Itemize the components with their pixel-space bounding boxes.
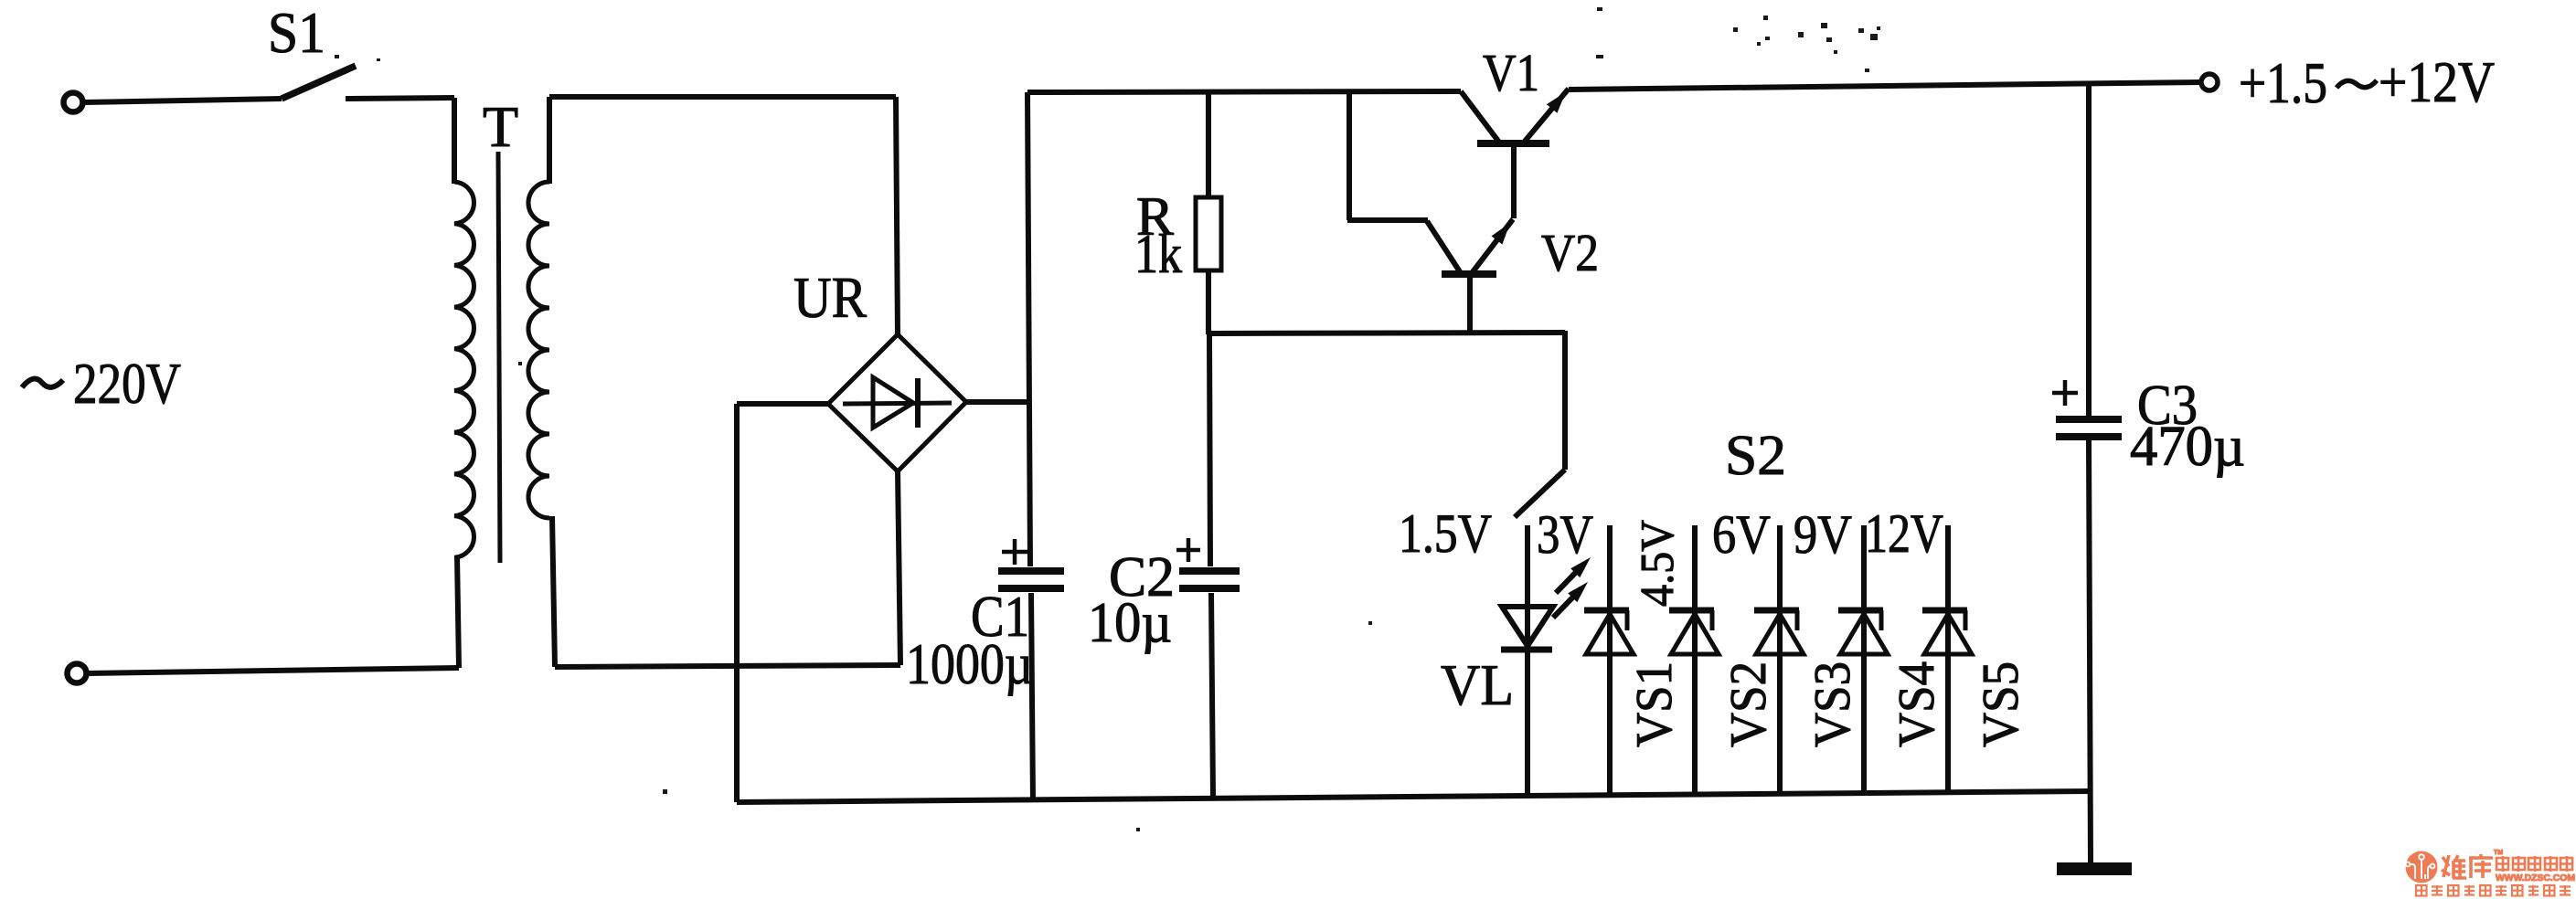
svg-text:VS4: VS4 [1889, 661, 1945, 747]
wire secondary top to top node [549, 97, 896, 184]
wire bridge minus to left drop [737, 404, 828, 802]
transistor V2 emitter [1472, 219, 1513, 273]
terminal: AC input bottom [68, 664, 87, 683]
label UR [793, 265, 867, 330]
svg-text:10µ: 10µ [1088, 592, 1172, 654]
svg-text:VS5: VS5 [1973, 661, 2029, 747]
led VL [1501, 607, 1553, 650]
wire rail to resistor R [1206, 90, 1211, 199]
transformer T primary winding [454, 182, 474, 557]
label R [1136, 186, 1174, 247]
wire 4.5V contact line [1692, 525, 1698, 794]
label V1 [1483, 43, 1539, 102]
terminal: output [2201, 74, 2218, 90]
wire 9V contact line [1861, 525, 1867, 793]
svg-text:VL: VL [1441, 652, 1514, 717]
label 3V [1537, 504, 1593, 565]
svg-text:UR: UR [793, 265, 867, 330]
label VL [1441, 652, 1514, 717]
wire bridge bottom lead [898, 470, 900, 665]
svg-text:TM: TM [2494, 850, 2503, 856]
svg-text:VS2: VS2 [1720, 661, 1777, 747]
svg-text:S2: S2 [1725, 425, 1786, 487]
resistor R 1k [1196, 197, 1221, 270]
svg-text:3V: 3V [1537, 504, 1593, 565]
transformer T secondary winding [528, 182, 549, 518]
wire C2 to bottom rail [1211, 593, 1213, 797]
zener diode VS4 [1838, 610, 1888, 654]
svg-text:12V: 12V [1865, 503, 1943, 564]
label VS3 [1804, 661, 1861, 747]
svg-text:S1: S1 [268, 0, 325, 65]
svg-text:WWW.DZSC.COM: WWW.DZSC.COM [2496, 873, 2575, 883]
wire input-top to S1 [83, 99, 282, 102]
svg-text:9V: 9V [1794, 504, 1852, 565]
svg-text:VS1: VS1 [1626, 661, 1683, 747]
svg-text:220V: 220V [73, 352, 181, 416]
svg-text:T: T [483, 94, 518, 159]
wire S1 to transformer primary top [346, 98, 454, 184]
label 1.5V [1399, 503, 1492, 564]
label +1.5 [2239, 51, 2327, 115]
wire top positive rail [1027, 91, 1461, 92]
svg-text:1k: 1k [1134, 224, 1182, 284]
label S2 [1725, 425, 1786, 487]
scan specks (noise) [335, 7, 1880, 831]
label C2 value 10u [1088, 592, 1172, 654]
label V2 [1541, 223, 1599, 282]
label VS4 [1889, 661, 1945, 747]
label T [483, 94, 518, 159]
label output tilde [2336, 80, 2377, 88]
svg-text:470µ: 470µ [2130, 416, 2245, 478]
wire 1.5V contact line [1525, 525, 1530, 796]
wire bottom ground rail [737, 791, 2092, 802]
zener diode VS3 [1754, 610, 1804, 654]
wire 3V contact line [1607, 525, 1613, 795]
capacitor C3 plus sign [2052, 380, 2078, 406]
svg-text:+12V: +12V [2379, 50, 2495, 114]
label VS1 [1626, 661, 1683, 747]
wire output rail [1569, 82, 2201, 90]
transistor V1 emitter [1523, 89, 1569, 143]
label 220V [73, 352, 181, 416]
capacitor C2 [1179, 571, 1240, 588]
svg-text:4.5V: 4.5V [1632, 520, 1684, 607]
label VS5 [1973, 661, 2029, 747]
transistor V1 collector [1461, 91, 1500, 143]
transistor V2 base lead [1467, 277, 1473, 333]
rectifier UR internal diode [843, 377, 952, 428]
label 12V [1865, 503, 1943, 564]
wire resistor R to node [1206, 269, 1211, 334]
svg-text:1.5V: 1.5V [1399, 503, 1492, 564]
capacitor C1 plus sign [1002, 539, 1027, 565]
wire bridge plus to main riser [966, 399, 1031, 405]
wire S2 wiper drop [1562, 331, 1568, 470]
svg-text:V1: V1 [1483, 43, 1539, 102]
zener diode VS5 [1922, 610, 1972, 654]
label ~220V tilde [22, 379, 63, 387]
transistor V2 base bar [1442, 270, 1496, 278]
wire node to S2 wiper [1208, 333, 1565, 333]
label C2 [1109, 546, 1175, 608]
rectifier UR diamond [828, 334, 966, 471]
zener diode VS1 [1584, 610, 1634, 654]
label C3 value 470u [2130, 416, 2245, 478]
label VS2 [1720, 661, 1777, 747]
wire rail to V2 collector [1347, 90, 1428, 220]
terminal: AC input top [64, 93, 83, 112]
wire input-bottom to primary bottom [87, 555, 459, 673]
capacitor C3 [2056, 419, 2122, 437]
wire bridge top lead [896, 97, 898, 336]
watermark logo dzsc.com [2406, 850, 2576, 896]
svg-text:VS3: VS3 [1804, 661, 1861, 747]
led VL arrows [1553, 557, 1591, 618]
wire main positive riser [1027, 92, 1033, 802]
label +12V [2379, 50, 2495, 114]
label C1 value 1000u [906, 632, 1033, 696]
label 4.5V [1632, 520, 1684, 607]
label S1 [268, 0, 325, 65]
wire C3 to ground [2089, 440, 2091, 865]
svg-text:V2: V2 [1541, 223, 1599, 282]
transformer T core [498, 152, 500, 563]
switch S2 blade [1515, 470, 1565, 517]
label R value 1k [1134, 224, 1182, 284]
svg-text:+1.5: +1.5 [2239, 51, 2327, 115]
transistor V1 base bar [1477, 140, 1549, 147]
capacitor C2 plus sign [1176, 538, 1200, 562]
label 6V [1712, 504, 1771, 565]
label 9V [1794, 504, 1852, 565]
wire node down to C2 [1209, 332, 1210, 566]
wire rail to C3 [2086, 82, 2092, 417]
ground [2057, 862, 2132, 875]
transistor V1 base lead [1511, 146, 1517, 218]
wire secondary bottom [552, 516, 900, 667]
label C1 [971, 584, 1029, 649]
capacitor C1 [998, 571, 1064, 588]
transistor V2 collector [1427, 221, 1461, 273]
switch S1 blade [282, 66, 356, 99]
svg-text:1000µ: 1000µ [906, 632, 1033, 696]
wire 6V contact line [1777, 525, 1783, 794]
wire 12V contact line [1945, 525, 1951, 792]
label C3 [2137, 375, 2198, 437]
svg-text:6V: 6V [1712, 504, 1771, 565]
zener diode VS2 [1669, 610, 1719, 654]
